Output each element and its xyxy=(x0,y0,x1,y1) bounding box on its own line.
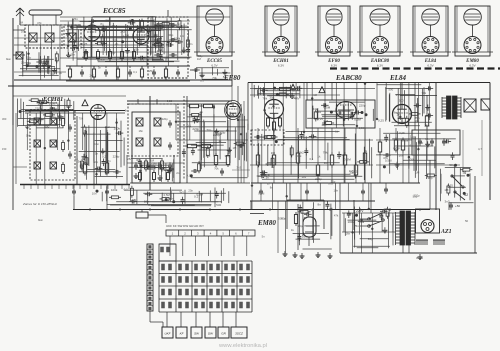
svg-text:16n: 16n xyxy=(169,197,174,201)
svg-text:70k: 70k xyxy=(50,72,55,76)
svg-text:2n: 2n xyxy=(83,24,87,28)
svg-text:1M: 1M xyxy=(349,169,354,173)
svg-text:50p: 50p xyxy=(207,128,212,132)
svg-text:0,25: 0,25 xyxy=(167,99,173,103)
svg-text:0,1: 0,1 xyxy=(124,188,129,192)
svg-text:8n: 8n xyxy=(108,159,112,163)
svg-text:0,1: 0,1 xyxy=(235,111,240,115)
svg-text:100k: 100k xyxy=(295,154,302,158)
svg-text:3n3: 3n3 xyxy=(177,22,182,26)
svg-text:UKF: UKF xyxy=(165,332,171,336)
svg-text:50p: 50p xyxy=(94,160,99,164)
svg-text:1k: 1k xyxy=(410,134,414,138)
svg-text:0,25: 0,25 xyxy=(265,162,271,166)
svg-text:3SCZ: 3SCZ xyxy=(235,332,243,336)
svg-text:10n: 10n xyxy=(347,212,352,216)
svg-text:30p: 30p xyxy=(269,95,274,99)
svg-text:1M: 1M xyxy=(26,134,31,138)
svg-text:2k2: 2k2 xyxy=(179,191,184,195)
svg-text:30p: 30p xyxy=(168,33,173,37)
svg-text:6,3V: 6,3V xyxy=(331,64,337,68)
svg-text:EL84: EL84 xyxy=(389,74,406,82)
svg-text:70k: 70k xyxy=(323,151,328,155)
svg-text:10n: 10n xyxy=(425,137,430,141)
svg-text:+50: +50 xyxy=(455,204,460,208)
svg-text:3n3: 3n3 xyxy=(445,199,450,203)
svg-text:8n: 8n xyxy=(223,75,227,79)
svg-text:0,1: 0,1 xyxy=(133,70,137,74)
svg-text:0,1: 0,1 xyxy=(140,58,145,62)
svg-text:500: 500 xyxy=(419,141,424,145)
svg-text:50p: 50p xyxy=(220,130,225,134)
svg-text:100k: 100k xyxy=(402,138,409,142)
svg-text:70k: 70k xyxy=(212,76,217,80)
svg-text:6,3V: 6,3V xyxy=(377,64,383,68)
svg-text:0,25: 0,25 xyxy=(148,203,154,207)
svg-text:2k2: 2k2 xyxy=(89,74,94,78)
svg-text:0,1: 0,1 xyxy=(309,157,313,161)
svg-text:220p: 220p xyxy=(162,117,169,121)
svg-text:25n: 25n xyxy=(424,124,429,128)
svg-text:8n: 8n xyxy=(100,22,104,26)
svg-text:16n: 16n xyxy=(102,27,107,31)
svg-text:8n: 8n xyxy=(317,203,321,207)
svg-text:50p: 50p xyxy=(414,119,419,123)
svg-text:2n: 2n xyxy=(256,161,260,165)
svg-text:30p: 30p xyxy=(136,158,141,162)
svg-text:8n: 8n xyxy=(394,111,398,115)
svg-text:2k2: 2k2 xyxy=(302,175,307,179)
svg-text:50p: 50p xyxy=(43,58,48,62)
svg-text:2k2: 2k2 xyxy=(105,125,110,129)
svg-text:47k: 47k xyxy=(334,213,339,217)
svg-text:0,5M: 0,5M xyxy=(344,157,351,161)
svg-text:5n: 5n xyxy=(98,66,102,70)
svg-text:2n: 2n xyxy=(52,115,56,119)
svg-text:30p: 30p xyxy=(198,54,203,58)
svg-text:30p: 30p xyxy=(331,180,336,184)
svg-text:1M: 1M xyxy=(150,158,155,162)
svg-text:www.elektronika.pl: www.elektronika.pl xyxy=(218,343,267,349)
svg-text:3G14: 3G14 xyxy=(416,256,423,260)
svg-text:100k: 100k xyxy=(113,126,120,130)
svg-text:6,3V: 6,3V xyxy=(469,64,475,68)
svg-text:0,5M: 0,5M xyxy=(354,118,361,122)
svg-text:500: 500 xyxy=(216,203,221,207)
svg-text:6,3V: 6,3V xyxy=(278,64,284,68)
svg-text:8n: 8n xyxy=(125,108,129,112)
svg-text:100k: 100k xyxy=(111,188,118,192)
svg-text:5n: 5n xyxy=(78,159,82,163)
svg-text:25n: 25n xyxy=(339,115,344,119)
svg-text:1k: 1k xyxy=(218,139,222,143)
svg-text:8n: 8n xyxy=(292,88,296,92)
svg-text:5n: 5n xyxy=(262,234,266,238)
svg-text:50p: 50p xyxy=(113,38,118,42)
svg-text:2k2: 2k2 xyxy=(44,61,49,65)
svg-text:220p: 220p xyxy=(315,177,322,181)
svg-text:1k: 1k xyxy=(364,149,368,153)
svg-text:0,1: 0,1 xyxy=(145,33,150,37)
svg-text:50p: 50p xyxy=(413,194,418,198)
svg-text:16n: 16n xyxy=(94,142,99,146)
svg-text:5n: 5n xyxy=(311,208,315,212)
svg-text:300: 300 xyxy=(2,117,7,121)
svg-text:3n3: 3n3 xyxy=(236,166,241,170)
svg-text:150: 150 xyxy=(2,147,7,151)
svg-text:70k: 70k xyxy=(214,166,219,170)
svg-text:10n: 10n xyxy=(333,188,338,192)
svg-text:1M: 1M xyxy=(324,161,329,165)
svg-text:5n: 5n xyxy=(266,175,270,179)
svg-text:47k: 47k xyxy=(383,207,388,211)
svg-text:1M: 1M xyxy=(271,151,276,155)
svg-text:50p: 50p xyxy=(297,224,302,228)
svg-text:0,25: 0,25 xyxy=(378,119,384,123)
svg-text:0,5M: 0,5M xyxy=(359,126,366,130)
svg-text:50p: 50p xyxy=(281,216,286,220)
svg-text:1M: 1M xyxy=(19,20,24,24)
svg-text:16n: 16n xyxy=(302,235,307,239)
svg-text:50: 50 xyxy=(465,219,469,223)
svg-text:500: 500 xyxy=(388,88,393,92)
svg-text:30p: 30p xyxy=(225,154,230,158)
svg-text:5n: 5n xyxy=(56,101,60,105)
svg-text:8n: 8n xyxy=(165,58,169,62)
svg-text:1M: 1M xyxy=(313,93,318,97)
svg-text:8n: 8n xyxy=(139,169,143,173)
svg-text:0,1: 0,1 xyxy=(187,123,192,127)
svg-text:25n: 25n xyxy=(149,69,154,73)
svg-text:47k: 47k xyxy=(37,21,42,25)
svg-text:10n: 10n xyxy=(188,42,193,46)
svg-text:Zakres fal: D 150-285kHz: Zakres fal: D 150-285kHz xyxy=(22,202,58,206)
svg-text:70k: 70k xyxy=(421,91,426,95)
svg-text:8n: 8n xyxy=(129,18,133,22)
svg-text:50p: 50p xyxy=(27,55,32,59)
svg-text:220p: 220p xyxy=(35,106,42,110)
svg-text:0,1: 0,1 xyxy=(186,173,190,177)
svg-text:1M: 1M xyxy=(444,188,449,192)
svg-text:2k2: 2k2 xyxy=(206,154,211,158)
svg-text:8n: 8n xyxy=(304,216,308,220)
svg-text:0,25: 0,25 xyxy=(399,131,405,135)
svg-text:2k2: 2k2 xyxy=(352,170,357,174)
svg-text:0,1: 0,1 xyxy=(200,79,204,83)
svg-text:25n: 25n xyxy=(73,17,78,21)
svg-text:0,5M: 0,5M xyxy=(385,159,392,163)
svg-text:UKF KF SW DW GR AD: UKF KF SW DW GR AD WY xyxy=(166,224,204,228)
svg-text:1M: 1M xyxy=(232,146,237,150)
svg-text:T6: T6 xyxy=(462,171,466,175)
svg-text:10n: 10n xyxy=(25,125,30,129)
svg-text:500: 500 xyxy=(399,98,404,102)
svg-text:ECC85: ECC85 xyxy=(102,6,126,15)
svg-text:0,5M: 0,5M xyxy=(164,193,171,197)
svg-text:70k: 70k xyxy=(262,96,267,100)
svg-text:47k: 47k xyxy=(313,107,318,111)
svg-text:EABC80: EABC80 xyxy=(335,74,362,82)
svg-text:KF: KF xyxy=(180,332,184,336)
svg-text:16n: 16n xyxy=(21,29,26,33)
svg-text:6,3V: 6,3V xyxy=(427,64,433,68)
svg-text:5n: 5n xyxy=(51,106,55,110)
svg-text:220p: 220p xyxy=(393,146,400,150)
svg-text:25n: 25n xyxy=(354,224,359,228)
svg-text:2n: 2n xyxy=(73,49,77,53)
svg-text:0,25: 0,25 xyxy=(109,24,115,28)
svg-text:10n: 10n xyxy=(92,191,97,195)
svg-text:47k: 47k xyxy=(104,170,109,174)
svg-text:25n: 25n xyxy=(21,60,26,64)
svg-text:16n: 16n xyxy=(180,34,185,38)
svg-text:8n: 8n xyxy=(134,198,138,202)
svg-text:220p: 220p xyxy=(192,127,199,131)
svg-text:16n: 16n xyxy=(53,140,58,144)
svg-text:AZ1: AZ1 xyxy=(440,229,452,235)
svg-text:2n: 2n xyxy=(176,171,180,175)
svg-text:8n: 8n xyxy=(148,29,152,33)
svg-text:5n: 5n xyxy=(130,28,134,32)
svg-text:5n: 5n xyxy=(123,34,127,38)
svg-text:0,25: 0,25 xyxy=(447,183,453,187)
svg-text:4,7: 4,7 xyxy=(478,147,482,151)
svg-text:16n: 16n xyxy=(346,231,351,235)
svg-text:16n: 16n xyxy=(399,154,404,158)
svg-text:EM80: EM80 xyxy=(257,219,276,227)
svg-text:25n: 25n xyxy=(134,47,139,51)
svg-text:100k: 100k xyxy=(98,58,105,62)
svg-text:25n: 25n xyxy=(158,166,163,170)
svg-text:1M: 1M xyxy=(415,170,420,174)
svg-text:220p: 220p xyxy=(113,154,120,158)
svg-text:25n: 25n xyxy=(188,189,193,193)
svg-text:0,5M: 0,5M xyxy=(258,191,265,195)
svg-text:8n: 8n xyxy=(270,186,274,190)
svg-text:25n: 25n xyxy=(127,157,132,161)
svg-text:16n: 16n xyxy=(138,129,143,133)
svg-text:0,1: 0,1 xyxy=(194,194,199,198)
svg-text:500: 500 xyxy=(106,19,111,23)
svg-text:8n: 8n xyxy=(59,114,63,118)
svg-text:16n: 16n xyxy=(408,143,413,147)
svg-text:5n: 5n xyxy=(83,132,87,136)
svg-text:0,25: 0,25 xyxy=(318,117,324,121)
svg-text:70k: 70k xyxy=(79,116,84,120)
